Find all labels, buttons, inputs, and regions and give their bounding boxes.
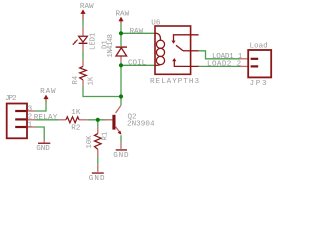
- svg-text:2: 2: [28, 114, 33, 122]
- svg-text:RAW: RAW: [80, 3, 94, 11]
- svg-text:3: 3: [28, 105, 33, 113]
- svg-text:RELAY: RELAY: [34, 114, 58, 122]
- svg-text:GND: GND: [113, 152, 129, 160]
- svg-text:RAW: RAW: [116, 11, 130, 19]
- svg-text:1K: 1K: [71, 109, 81, 117]
- svg-text:R2: R2: [71, 125, 81, 133]
- svg-text:JP2: JP2: [5, 95, 17, 103]
- svg-text:LED1: LED1: [89, 33, 97, 50]
- svg-text:2N3904: 2N3904: [127, 121, 155, 129]
- svg-text:LOAD2 2: LOAD2 2: [207, 61, 242, 69]
- svg-text:10K: 10K: [86, 135, 94, 149]
- svg-text:GND: GND: [89, 175, 105, 183]
- svg-text:1K: 1K: [87, 76, 95, 85]
- svg-text:COIL: COIL: [128, 59, 147, 67]
- svg-text:GND: GND: [36, 145, 50, 153]
- svg-text:RAW: RAW: [130, 28, 144, 36]
- svg-text:1: 1: [28, 122, 33, 130]
- svg-text:RELAYPTH3: RELAYPTH3: [150, 78, 199, 86]
- svg-text:1N4148: 1N4148: [107, 34, 115, 58]
- svg-text:R4: R4: [72, 76, 80, 85]
- svg-text:U6: U6: [151, 19, 161, 27]
- svg-text:Load: Load: [250, 42, 268, 50]
- svg-text:JP3: JP3: [250, 80, 267, 88]
- svg-text:R1: R1: [102, 132, 110, 141]
- svg-text:RAW: RAW: [40, 88, 56, 96]
